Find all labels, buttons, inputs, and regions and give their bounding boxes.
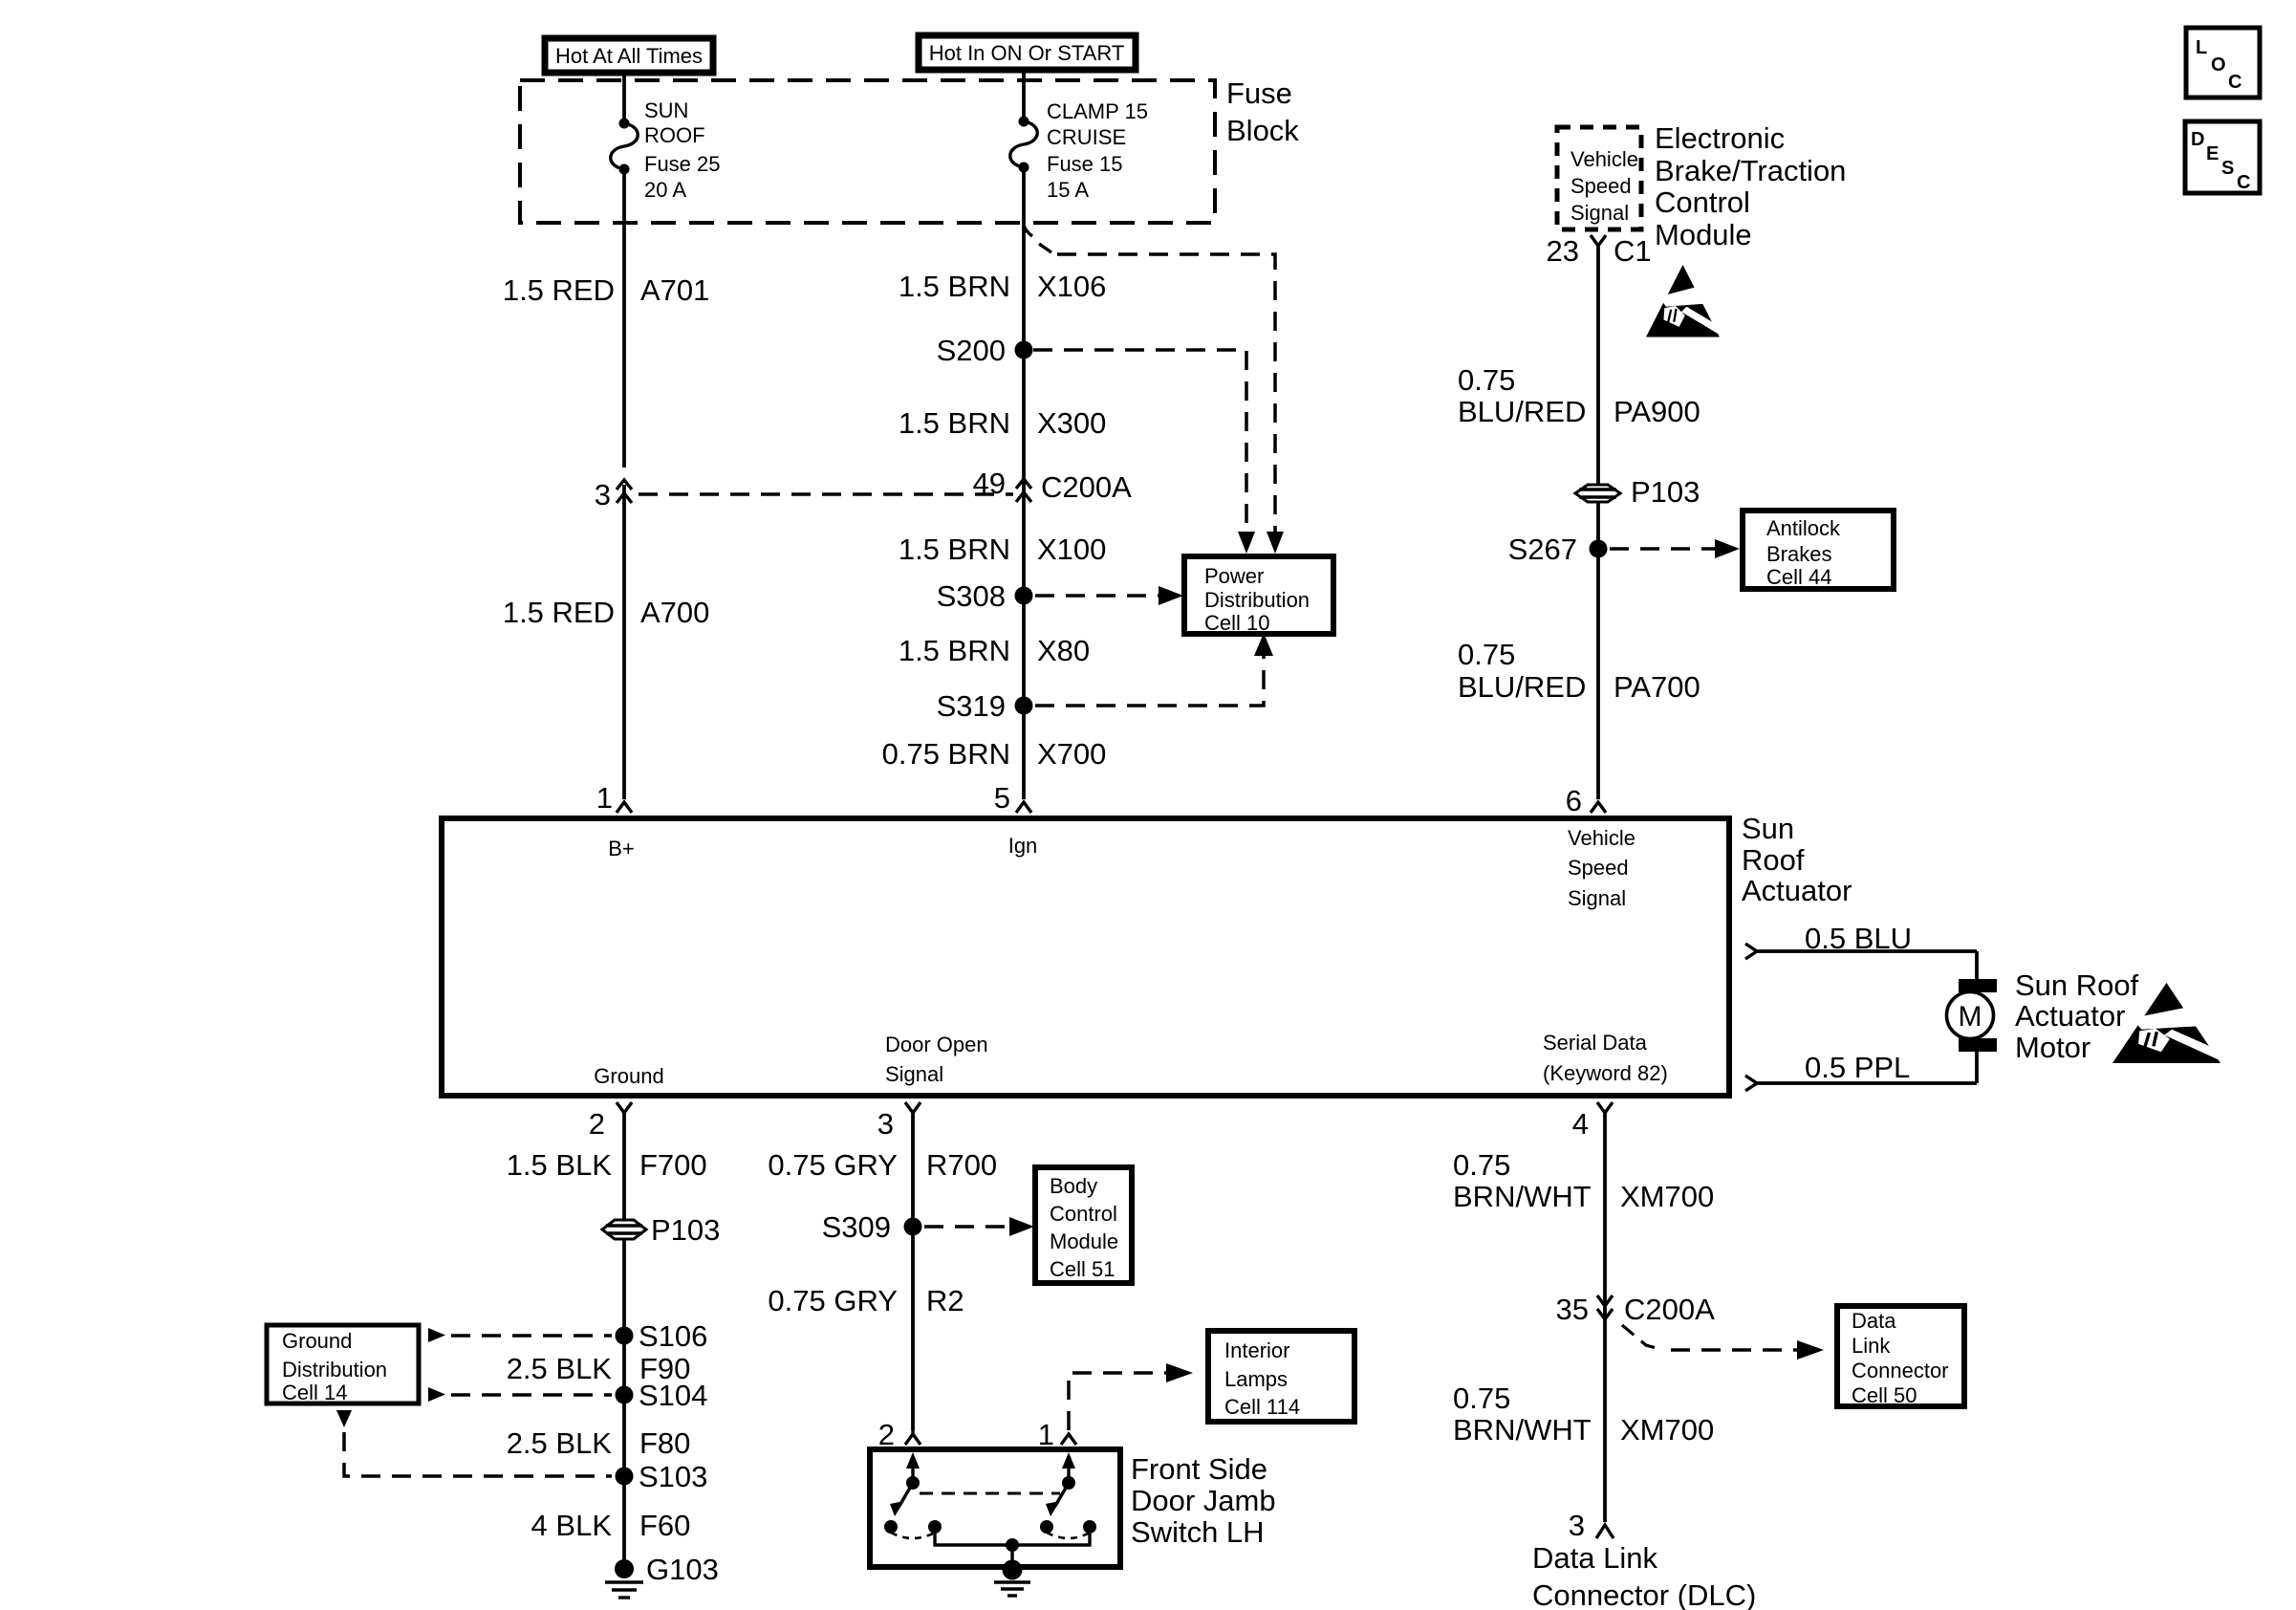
svg-text:Lamps: Lamps — [1224, 1367, 1288, 1391]
svg-text:Electronic: Electronic — [1655, 121, 1785, 155]
svg-text:35: 35 — [1556, 1293, 1589, 1326]
svg-text:5: 5 — [994, 781, 1010, 815]
svg-text:15 A: 15 A — [1047, 178, 1089, 202]
svg-text:Speed: Speed — [1570, 174, 1632, 198]
svg-text:Module: Module — [1050, 1229, 1118, 1253]
svg-text:X100: X100 — [1037, 533, 1106, 566]
svg-text:F80: F80 — [639, 1426, 690, 1460]
svg-text:Block: Block — [1226, 114, 1299, 147]
svg-text:X80: X80 — [1037, 634, 1090, 667]
svg-text:C1: C1 — [1614, 234, 1652, 268]
svg-text:PA700: PA700 — [1614, 670, 1700, 704]
svg-text:Hot At All Times: Hot At All Times — [555, 44, 703, 68]
svg-text:0.75 BRN: 0.75 BRN — [882, 737, 1010, 771]
svg-text:BLU/RED: BLU/RED — [1458, 395, 1586, 428]
svg-text:Actuator: Actuator — [1742, 874, 1852, 907]
svg-text:CLAMP 15: CLAMP 15 — [1047, 99, 1148, 123]
svg-text:Ground: Ground — [594, 1064, 663, 1088]
svg-text:Cell 44: Cell 44 — [1766, 565, 1831, 589]
svg-text:X106: X106 — [1037, 270, 1106, 303]
svg-text:Cell 14: Cell 14 — [282, 1381, 347, 1404]
svg-text:20 A: 20 A — [644, 178, 686, 202]
svg-text:Power: Power — [1204, 564, 1264, 588]
svg-text:B+: B+ — [608, 837, 635, 860]
svg-text:Module: Module — [1655, 218, 1752, 251]
svg-text:Cell 50: Cell 50 — [1852, 1383, 1917, 1407]
svg-text:PA900: PA900 — [1614, 395, 1700, 428]
svg-text:Fuse: Fuse — [1226, 76, 1292, 110]
svg-text:Control: Control — [1655, 185, 1750, 219]
svg-text:2: 2 — [878, 1418, 895, 1451]
svg-text:Body: Body — [1050, 1174, 1097, 1198]
svg-text:XM700: XM700 — [1620, 1180, 1714, 1213]
svg-text:C200A: C200A — [1624, 1293, 1715, 1326]
svg-text:3: 3 — [595, 478, 611, 511]
svg-text:Switch LH: Switch LH — [1131, 1515, 1265, 1549]
svg-text:Cell 10: Cell 10 — [1204, 611, 1269, 635]
svg-text:Door Jamb: Door Jamb — [1131, 1484, 1276, 1517]
svg-text:X700: X700 — [1037, 737, 1106, 771]
svg-text:0.75: 0.75 — [1453, 1382, 1510, 1415]
svg-text:ROOF: ROOF — [644, 123, 705, 147]
svg-text:Signal: Signal — [885, 1062, 943, 1086]
svg-text:Ign: Ign — [1008, 834, 1038, 858]
svg-text:0.75: 0.75 — [1458, 363, 1515, 397]
svg-text:Signal: Signal — [1570, 201, 1629, 225]
svg-text:Vehicle: Vehicle — [1568, 826, 1635, 850]
svg-text:BLU/RED: BLU/RED — [1458, 670, 1586, 704]
svg-text:Distribution: Distribution — [1204, 588, 1310, 612]
svg-text:0.75 GRY: 0.75 GRY — [768, 1284, 898, 1317]
svg-text:(Keyword 82): (Keyword 82) — [1543, 1061, 1668, 1085]
svg-text:A701: A701 — [640, 273, 709, 307]
svg-text:P103: P103 — [651, 1213, 720, 1247]
svg-text:1: 1 — [1038, 1418, 1054, 1451]
svg-text:S200: S200 — [937, 334, 1006, 367]
svg-text:0.5 PPL: 0.5 PPL — [1805, 1051, 1910, 1084]
svg-text:1.5 BRN: 1.5 BRN — [899, 406, 1010, 440]
svg-text:S267: S267 — [1508, 533, 1577, 566]
svg-text:L: L — [2196, 37, 2207, 58]
svg-text:CRUISE: CRUISE — [1047, 125, 1126, 149]
svg-text:S309: S309 — [822, 1210, 891, 1244]
svg-text:S106: S106 — [639, 1319, 707, 1353]
svg-text:0.75: 0.75 — [1458, 638, 1515, 671]
svg-text:S103: S103 — [639, 1460, 707, 1493]
svg-text:Serial Data: Serial Data — [1543, 1031, 1648, 1055]
svg-text:0.75 GRY: 0.75 GRY — [768, 1148, 898, 1182]
svg-text:Sun: Sun — [1742, 812, 1794, 845]
svg-text:2.5 BLK: 2.5 BLK — [507, 1352, 613, 1385]
svg-text:Motor: Motor — [2015, 1031, 2090, 1064]
svg-text:XM700: XM700 — [1620, 1413, 1714, 1447]
svg-text:Front Side: Front Side — [1131, 1452, 1267, 1486]
svg-text:F700: F700 — [639, 1148, 707, 1182]
svg-text:4: 4 — [1572, 1107, 1589, 1141]
svg-text:Distribution: Distribution — [282, 1358, 387, 1382]
svg-text:P103: P103 — [1631, 475, 1700, 509]
svg-text:Fuse 25: Fuse 25 — [644, 152, 721, 176]
svg-text:Interior: Interior — [1224, 1338, 1289, 1362]
svg-text:BRN/WHT: BRN/WHT — [1453, 1180, 1592, 1213]
svg-text:SUN: SUN — [644, 98, 688, 122]
svg-text:Brake/Traction: Brake/Traction — [1655, 154, 1846, 187]
svg-text:0.75: 0.75 — [1453, 1148, 1510, 1182]
svg-text:Signal: Signal — [1568, 886, 1626, 910]
svg-text:G103: G103 — [646, 1553, 719, 1586]
svg-text:2.5 BLK: 2.5 BLK — [507, 1426, 613, 1460]
svg-text:Actuator: Actuator — [2015, 999, 2125, 1033]
svg-text:Control: Control — [1050, 1202, 1117, 1226]
svg-text:Data Link: Data Link — [1532, 1541, 1657, 1575]
svg-text:S: S — [2221, 158, 2234, 179]
svg-text:O: O — [2211, 54, 2226, 76]
svg-text:Fuse 15: Fuse 15 — [1047, 152, 1123, 176]
svg-text:Hot In ON Or START: Hot In ON Or START — [929, 41, 1125, 65]
svg-text:0.5 BLU: 0.5 BLU — [1805, 922, 1912, 955]
svg-text:E: E — [2206, 143, 2219, 164]
svg-text:S104: S104 — [639, 1379, 707, 1412]
svg-text:1.5 BRN: 1.5 BRN — [899, 634, 1010, 667]
svg-text:R2: R2 — [926, 1284, 964, 1317]
svg-text:1.5 RED: 1.5 RED — [503, 596, 615, 629]
svg-text:C: C — [2237, 172, 2250, 193]
svg-text:Cell 51: Cell 51 — [1050, 1257, 1115, 1281]
svg-text:1.5 BRN: 1.5 BRN — [899, 270, 1010, 303]
svg-text:Cell 114: Cell 114 — [1224, 1395, 1300, 1419]
svg-text:D: D — [2191, 129, 2204, 150]
svg-text:Link: Link — [1852, 1334, 1891, 1358]
svg-text:1: 1 — [596, 781, 613, 815]
svg-text:S319: S319 — [937, 689, 1006, 723]
svg-text:F60: F60 — [639, 1509, 690, 1542]
svg-text:6: 6 — [1566, 784, 1582, 817]
svg-text:1.5 RED: 1.5 RED — [503, 273, 615, 307]
svg-text:3: 3 — [1569, 1509, 1585, 1542]
svg-text:2: 2 — [589, 1107, 605, 1141]
svg-text:Antilock: Antilock — [1766, 516, 1841, 540]
svg-text:Sun Roof: Sun Roof — [2015, 968, 2139, 1002]
svg-text:C200A: C200A — [1041, 470, 1132, 504]
svg-text:Roof: Roof — [1742, 843, 1805, 877]
svg-text:C: C — [2228, 72, 2242, 93]
svg-text:Connector (DLC): Connector (DLC) — [1532, 1578, 1756, 1610]
svg-text:X300: X300 — [1037, 406, 1106, 440]
svg-text:BRN/WHT: BRN/WHT — [1453, 1413, 1592, 1447]
svg-text:3: 3 — [877, 1107, 894, 1141]
svg-text:Brakes: Brakes — [1766, 542, 1831, 566]
svg-text:Connector: Connector — [1852, 1359, 1949, 1382]
svg-text:Data: Data — [1852, 1309, 1896, 1333]
svg-text:1.5 BRN: 1.5 BRN — [899, 533, 1010, 566]
svg-text:4 BLK: 4 BLK — [531, 1509, 613, 1542]
svg-text:M: M — [1959, 1001, 1982, 1033]
svg-text:A700: A700 — [640, 596, 709, 629]
svg-text:Vehicle: Vehicle — [1570, 147, 1638, 171]
svg-text:1.5 BLK: 1.5 BLK — [507, 1148, 613, 1182]
svg-text:23: 23 — [1547, 234, 1579, 268]
svg-text:R700: R700 — [926, 1148, 997, 1182]
svg-text:Door Open: Door Open — [885, 1033, 988, 1056]
svg-text:S308: S308 — [937, 579, 1006, 613]
svg-text:49: 49 — [973, 467, 1006, 500]
svg-text:Speed: Speed — [1568, 856, 1629, 880]
svg-text:Ground: Ground — [282, 1329, 352, 1353]
